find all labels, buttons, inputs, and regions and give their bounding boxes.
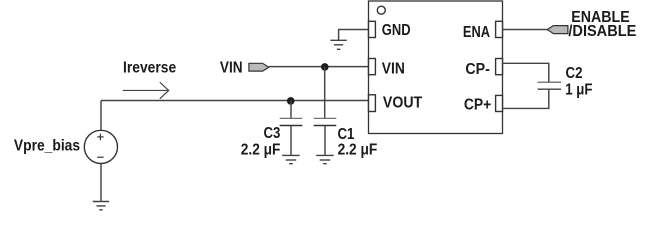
voltage source Vpre_bias <box>84 130 117 163</box>
pin VOUT box <box>369 95 376 112</box>
ground (at GND pin) <box>330 40 346 49</box>
svg-text:VIN: VIN <box>220 59 243 76</box>
svg-text:Vpre_bias: Vpre_bias <box>14 138 80 155</box>
wire VIN tag to VIN pin <box>269 66 369 68</box>
wire CP+ pin to C2 <box>503 89 549 108</box>
wire VOUT node down to C3 <box>290 101 292 119</box>
wire VOUT pin to left corner <box>101 100 369 102</box>
value 2.2 uF (C3) <box>241 142 281 159</box>
wire C1 to ground <box>324 126 326 156</box>
svg-text:VIN: VIN <box>382 60 405 77</box>
svg-text:Ireverse: Ireverse <box>123 59 177 76</box>
value 2.2 uF (C1) <box>338 142 378 159</box>
VIN input tag connector <box>249 63 269 71</box>
pin VIN box <box>369 59 376 75</box>
capacitor C2 <box>538 82 562 89</box>
svg-text:CP+: CP+ <box>464 96 491 113</box>
label /DISABLE <box>568 23 636 40</box>
label Vpre_bias <box>14 138 80 155</box>
ground (below C1) <box>316 155 334 163</box>
svg-text:C2: C2 <box>566 65 583 82</box>
label C1 <box>338 126 355 143</box>
node junction on VIN net <box>321 63 329 71</box>
pin CP+ box <box>496 95 503 111</box>
pin-1 indicator circle <box>377 6 385 14</box>
svg-text:CP-: CP- <box>465 61 490 78</box>
pin GND label <box>382 22 411 39</box>
wire CP- pin to C2 <box>503 63 549 82</box>
svg-text:VOUT: VOUT <box>383 94 423 111</box>
pin VIN label <box>382 60 405 77</box>
pin CP- label <box>465 61 490 78</box>
svg-text:1 μF: 1 μF <box>565 81 592 98</box>
svg-text:2.2 μF: 2.2 μF <box>241 142 281 159</box>
Ireverse current arrow <box>123 82 169 99</box>
pin ENA box <box>496 21 503 37</box>
ground (below C3) <box>282 155 300 163</box>
wire ENA pin to tag <box>503 29 548 31</box>
svg-text:C3: C3 <box>264 125 281 142</box>
svg-text:2.2 μF: 2.2 μF <box>338 142 378 159</box>
label Ireverse <box>123 59 177 76</box>
wire VIN node down to C1 <box>324 67 326 119</box>
op-amp U1 (IC body) <box>369 1 503 134</box>
svg-text:GND: GND <box>382 22 411 39</box>
svg-text:C1: C1 <box>338 126 355 143</box>
svg-text:ENA: ENA <box>463 24 490 41</box>
wire VOUT corner down to source <box>100 101 102 131</box>
ground (below source) <box>93 202 109 210</box>
pin ENA label <box>463 24 490 41</box>
pin CP- box <box>496 59 503 75</box>
node junction on VOUT net <box>287 97 295 105</box>
capacitor C3 <box>280 118 303 125</box>
label C3 <box>264 125 281 142</box>
pin GND box <box>369 21 376 37</box>
label VIN (net label) <box>220 59 243 76</box>
capacitor C1 <box>314 118 337 125</box>
value 1 uF (C2) <box>565 81 592 98</box>
ENABLE/DISABLE tag connector <box>547 26 568 34</box>
pin CP+ label <box>464 96 491 113</box>
pin VOUT label <box>383 94 423 111</box>
wire C3 to ground <box>290 126 292 156</box>
label C2 <box>566 65 583 82</box>
label ENABLE <box>571 9 629 26</box>
svg-text:/DISABLE: /DISABLE <box>568 23 636 40</box>
wire GND pin to ground <box>339 30 369 41</box>
wire source to ground <box>100 164 102 202</box>
